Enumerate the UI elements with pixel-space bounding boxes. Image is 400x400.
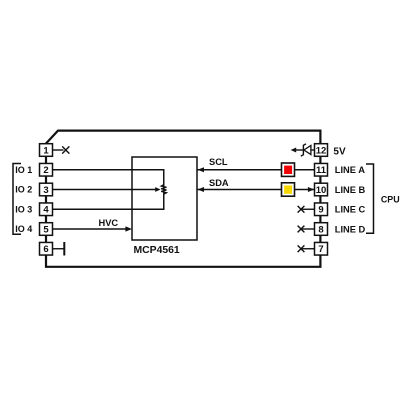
svg-text:5V: 5V — [333, 146, 346, 157]
svg-text:9: 9 — [318, 205, 323, 216]
svg-text:SCL: SCL — [209, 157, 228, 167]
svg-text:IO 4: IO 4 — [15, 224, 32, 234]
wiper arrowhead — [155, 187, 160, 192]
svg-text:IO 2: IO 2 — [15, 185, 32, 195]
wire pin2 to potentiometer top — [53, 170, 164, 186]
wire pin7 stub — [301, 248, 315, 250]
pin 2 — [40, 163, 53, 176]
wire pot top lead (inside MCP4561) — [163, 170, 165, 210]
svg-text:MCP4561: MCP4561 — [134, 245, 180, 256]
pin 1 — [40, 144, 53, 157]
wire pin3 wiper — [53, 189, 156, 191]
pin 7 — [315, 242, 328, 255]
svg-text:12: 12 — [316, 145, 327, 156]
svg-text:LINE A: LINE A — [335, 165, 365, 175]
arrowhead SDA into MCP4561 — [198, 187, 205, 192]
svg-text:2: 2 — [43, 165, 48, 176]
svg-text:LINE B: LINE B — [335, 185, 366, 195]
zener diode at pin12 (5V supply) — [291, 144, 315, 156]
no-connect X pin1 — [62, 146, 69, 153]
svg-text:CPU: CPU — [381, 195, 400, 205]
svg-text:IO 3: IO 3 — [15, 204, 32, 214]
svg-text:IO 1: IO 1 — [15, 165, 32, 175]
svg-text:10: 10 — [316, 185, 327, 196]
svg-text:5: 5 — [43, 224, 49, 235]
chip outline (module boundary with chamfered top-left corner) — [46, 131, 320, 267]
right CPU bracket — [366, 164, 374, 233]
pin 8 — [315, 223, 328, 236]
red LED square on SCL line (node at pin11) — [282, 163, 295, 176]
svg-text:LINE D: LINE D — [335, 224, 366, 234]
no-connect X pin8 — [298, 226, 305, 233]
wire pin9 stub — [301, 208, 315, 210]
wire pin5 HVC — [53, 228, 128, 230]
pin 4 — [40, 203, 53, 216]
pin 11 — [315, 163, 328, 176]
yellow LED square on SDA line (node at pin10) — [282, 183, 295, 196]
pin 6 — [40, 242, 53, 255]
svg-text:3: 3 — [43, 185, 48, 196]
svg-text:11: 11 — [316, 165, 327, 176]
wire pin6 stub — [53, 248, 64, 250]
pin 12 — [315, 144, 328, 157]
arrowhead HVC into MCP4561 — [125, 226, 132, 231]
termination bar at pin6 — [63, 242, 65, 256]
wire pin4 to potentiometer bottom — [53, 194, 164, 209]
pin 10 — [315, 183, 328, 196]
potentiometer resistor zigzag — [161, 185, 166, 195]
pin 3 — [40, 183, 53, 196]
wire pin8 stub — [301, 228, 315, 230]
left IO bracket — [13, 164, 21, 235]
inner box MCP4561 — [132, 157, 197, 240]
wire SDA (pin10 to MCP4561) — [197, 189, 315, 191]
svg-text:LINE C: LINE C — [335, 205, 366, 215]
svg-text:HVC: HVC — [99, 218, 119, 228]
svg-text:SDA: SDA — [209, 178, 229, 188]
no-connect X pin9 — [298, 206, 305, 213]
pin 9 — [315, 203, 328, 216]
svg-text:4: 4 — [43, 205, 49, 216]
svg-text:6: 6 — [43, 244, 48, 255]
svg-text:1: 1 — [43, 145, 49, 156]
arrowhead SCL into MCP4561 — [198, 167, 205, 172]
svg-text:8: 8 — [318, 224, 323, 235]
pin 5 — [40, 223, 53, 236]
no-connect X pin7 — [298, 245, 305, 252]
svg-text:7: 7 — [318, 244, 323, 255]
arrowhead SDA into pin10 — [308, 187, 314, 192]
wire SCL (pin11 to MCP4561) — [197, 169, 315, 171]
wire pin1 stub — [53, 149, 64, 151]
